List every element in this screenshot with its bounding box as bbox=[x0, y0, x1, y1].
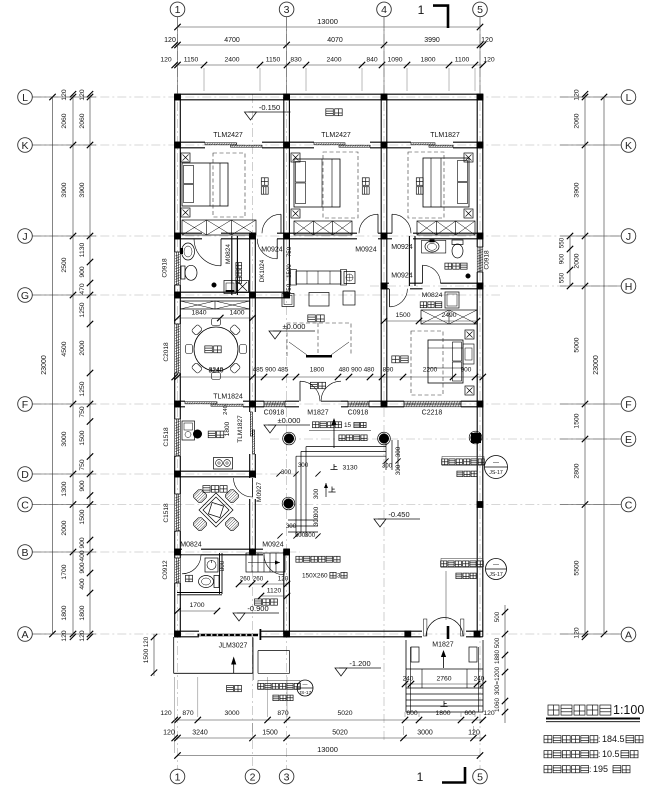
svg-text:120: 120 bbox=[160, 57, 172, 64]
svg-text:2400: 2400 bbox=[326, 57, 341, 64]
svg-text:1700: 1700 bbox=[189, 602, 204, 609]
svg-text:3: 3 bbox=[284, 4, 290, 16]
svg-text:TLM1827: TLM1827 bbox=[237, 415, 244, 443]
svg-text:K: K bbox=[21, 140, 28, 152]
svg-text:600: 600 bbox=[464, 710, 476, 717]
svg-text:120: 120 bbox=[483, 57, 495, 64]
svg-text::: : bbox=[589, 764, 591, 774]
svg-text:300: 300 bbox=[281, 469, 292, 476]
svg-text:C0918: C0918 bbox=[264, 410, 285, 417]
svg-text:JS-17: JS-17 bbox=[489, 470, 503, 476]
svg-text:-0.150: -0.150 bbox=[259, 103, 280, 112]
svg-text:1800: 1800 bbox=[310, 367, 325, 374]
svg-text:240: 240 bbox=[474, 676, 485, 683]
svg-text:120: 120 bbox=[61, 89, 68, 101]
svg-text:3000: 3000 bbox=[61, 431, 68, 446]
svg-text:3990: 3990 bbox=[424, 37, 440, 44]
svg-text:890: 890 bbox=[383, 367, 394, 374]
svg-text:1: 1 bbox=[417, 770, 424, 784]
svg-text:TLM2427: TLM2427 bbox=[213, 132, 243, 139]
svg-text:485: 485 bbox=[278, 367, 289, 374]
svg-text:—: — bbox=[493, 563, 499, 569]
svg-text:DK1024: DK1024 bbox=[259, 259, 266, 282]
svg-text:2400: 2400 bbox=[224, 57, 239, 64]
svg-text:J: J bbox=[626, 231, 631, 243]
svg-text:120: 120 bbox=[79, 630, 86, 642]
svg-text:600: 600 bbox=[406, 710, 418, 717]
svg-text:1300: 1300 bbox=[61, 481, 68, 496]
svg-text:23000: 23000 bbox=[41, 355, 48, 375]
svg-text:400: 400 bbox=[79, 578, 86, 590]
svg-text:830: 830 bbox=[290, 57, 302, 64]
svg-text:900: 900 bbox=[559, 253, 566, 264]
svg-text:M0924: M0924 bbox=[355, 247, 377, 254]
svg-text:840: 840 bbox=[366, 57, 378, 64]
svg-text:485: 485 bbox=[253, 367, 264, 374]
svg-text:900: 900 bbox=[79, 537, 86, 549]
svg-text:120: 120 bbox=[278, 576, 289, 583]
svg-text:2000: 2000 bbox=[61, 520, 68, 535]
svg-text:120: 120 bbox=[61, 630, 68, 642]
svg-text:300: 300 bbox=[286, 523, 297, 530]
svg-text:L: L bbox=[626, 92, 632, 104]
svg-text:5: 5 bbox=[477, 771, 483, 783]
svg-text:300: 300 bbox=[395, 464, 402, 475]
svg-text:1: 1 bbox=[418, 3, 425, 17]
svg-text:15: 15 bbox=[344, 422, 352, 429]
svg-text:240: 240 bbox=[403, 676, 414, 683]
svg-text:300: 300 bbox=[298, 462, 309, 469]
svg-text:C0912: C0912 bbox=[162, 560, 169, 580]
svg-text:1150: 1150 bbox=[266, 57, 281, 64]
svg-text:1800: 1800 bbox=[435, 710, 450, 717]
svg-text:A: A bbox=[625, 629, 632, 641]
svg-text:M0924: M0924 bbox=[391, 273, 413, 280]
svg-text:D: D bbox=[21, 469, 29, 481]
svg-text:1880: 1880 bbox=[494, 650, 501, 665]
svg-text:23000: 23000 bbox=[593, 355, 600, 375]
svg-text:2760: 2760 bbox=[436, 676, 451, 683]
svg-text:120: 120 bbox=[481, 37, 493, 44]
svg-text:2500: 2500 bbox=[61, 257, 68, 272]
svg-text:E: E bbox=[625, 434, 632, 446]
svg-text:K: K bbox=[625, 140, 632, 152]
svg-text:1250: 1250 bbox=[79, 381, 86, 396]
svg-text:260: 260 bbox=[240, 576, 251, 583]
svg-text:2800: 2800 bbox=[574, 463, 581, 478]
svg-text:JS-17: JS-17 bbox=[489, 572, 503, 578]
svg-text:—: — bbox=[493, 461, 499, 467]
svg-text:M1827: M1827 bbox=[432, 642, 454, 649]
svg-text:H: H bbox=[625, 281, 633, 293]
svg-text:1500: 1500 bbox=[286, 264, 293, 278]
svg-text:C1518: C1518 bbox=[163, 427, 170, 447]
svg-text:5: 5 bbox=[477, 4, 483, 16]
svg-text:300: 300 bbox=[305, 532, 316, 539]
svg-text:4700: 4700 bbox=[224, 37, 240, 44]
svg-text:F: F bbox=[22, 399, 28, 411]
svg-text:750: 750 bbox=[286, 246, 293, 257]
svg-text:1840: 1840 bbox=[191, 310, 206, 317]
svg-text:2000: 2000 bbox=[574, 253, 581, 268]
svg-text:1500: 1500 bbox=[574, 413, 581, 428]
svg-text:C0918: C0918 bbox=[162, 258, 169, 278]
svg-text:3130: 3130 bbox=[342, 465, 357, 472]
svg-text:M0927: M0927 bbox=[256, 482, 263, 502]
svg-text:195: 195 bbox=[593, 764, 608, 774]
svg-text:3240: 3240 bbox=[192, 730, 208, 737]
svg-text:2060: 2060 bbox=[574, 113, 581, 128]
svg-text:1500: 1500 bbox=[79, 509, 86, 524]
svg-text:C0918: C0918 bbox=[484, 250, 491, 270]
svg-text:300: 300 bbox=[395, 446, 402, 457]
svg-text:M1827: M1827 bbox=[307, 410, 329, 417]
svg-text:184.5: 184.5 bbox=[602, 734, 625, 744]
svg-text:TLM2427: TLM2427 bbox=[321, 132, 351, 139]
svg-text:870: 870 bbox=[182, 710, 194, 717]
svg-text:C: C bbox=[21, 499, 29, 511]
svg-text:900: 900 bbox=[79, 266, 86, 278]
svg-text:1400: 1400 bbox=[229, 310, 244, 317]
svg-text:120: 120 bbox=[574, 627, 581, 639]
svg-text:M0924: M0924 bbox=[261, 247, 283, 254]
svg-text:1150: 1150 bbox=[184, 57, 199, 64]
svg-text:1800: 1800 bbox=[79, 605, 86, 620]
svg-text:J: J bbox=[22, 231, 27, 243]
svg-text:3900: 3900 bbox=[574, 182, 581, 197]
svg-text:L: L bbox=[22, 92, 28, 104]
svg-text:1500: 1500 bbox=[143, 648, 150, 663]
svg-text:1500: 1500 bbox=[395, 312, 410, 319]
svg-text:2060: 2060 bbox=[61, 113, 68, 128]
svg-text:1100: 1100 bbox=[455, 57, 470, 64]
svg-text:C2218: C2218 bbox=[422, 410, 443, 417]
svg-text:1500: 1500 bbox=[262, 730, 278, 737]
svg-text:300: 300 bbox=[313, 488, 320, 499]
svg-text:900: 900 bbox=[461, 367, 472, 374]
svg-text:1: 1 bbox=[175, 4, 181, 16]
svg-text:TLM1824: TLM1824 bbox=[213, 394, 243, 401]
svg-text:300: 300 bbox=[313, 515, 320, 526]
svg-text:1:100: 1:100 bbox=[613, 703, 644, 717]
svg-text:1: 1 bbox=[175, 771, 181, 783]
svg-text:1120: 1120 bbox=[267, 588, 282, 595]
svg-text:5500: 5500 bbox=[574, 560, 581, 575]
svg-text:-1.200: -1.200 bbox=[349, 659, 370, 668]
svg-text:1500: 1500 bbox=[79, 430, 86, 445]
svg-text:5000: 5000 bbox=[574, 337, 581, 352]
svg-text:3: 3 bbox=[337, 573, 341, 580]
svg-text:3000: 3000 bbox=[417, 730, 433, 737]
svg-text:2000: 2000 bbox=[79, 340, 86, 355]
svg-text:5020: 5020 bbox=[337, 710, 352, 717]
svg-text:A: A bbox=[21, 629, 28, 641]
svg-text:120: 120 bbox=[79, 89, 86, 101]
svg-text::: : bbox=[598, 734, 600, 744]
svg-text:2200: 2200 bbox=[423, 367, 438, 374]
svg-text:4070: 4070 bbox=[327, 37, 343, 44]
svg-text:3000: 3000 bbox=[224, 710, 239, 717]
svg-text:2490: 2490 bbox=[441, 312, 456, 319]
svg-text:5020: 5020 bbox=[332, 730, 348, 737]
svg-text:3: 3 bbox=[284, 771, 290, 783]
svg-text:M0824: M0824 bbox=[422, 292, 443, 299]
svg-text:750: 750 bbox=[79, 459, 86, 471]
svg-text:1250: 1250 bbox=[79, 302, 86, 317]
svg-text:1800: 1800 bbox=[224, 421, 231, 436]
svg-text:±0.000: ±0.000 bbox=[278, 416, 301, 425]
svg-text:900: 900 bbox=[351, 367, 362, 374]
svg-text:3900: 3900 bbox=[61, 182, 68, 197]
svg-text:300: 300 bbox=[313, 506, 320, 517]
svg-text:480: 480 bbox=[364, 367, 375, 374]
svg-text:C1518: C1518 bbox=[163, 503, 170, 523]
svg-text:900: 900 bbox=[79, 480, 86, 492]
svg-text:B: B bbox=[21, 547, 28, 559]
svg-text:M0924: M0924 bbox=[262, 542, 284, 549]
svg-text:1800: 1800 bbox=[420, 57, 435, 64]
svg-text:13000: 13000 bbox=[317, 745, 338, 754]
svg-text:260: 260 bbox=[253, 576, 264, 583]
svg-text:800: 800 bbox=[219, 560, 226, 571]
svg-text:550: 550 bbox=[559, 272, 566, 283]
svg-text:C0918: C0918 bbox=[348, 410, 369, 417]
svg-text:500: 500 bbox=[494, 611, 501, 622]
svg-text:240: 240 bbox=[223, 405, 229, 415]
svg-text:1700: 1700 bbox=[61, 564, 68, 579]
svg-text:±0.000: ±0.000 bbox=[283, 322, 306, 331]
svg-text:4: 4 bbox=[381, 4, 387, 16]
svg-text:120: 120 bbox=[574, 89, 581, 101]
svg-text:120: 120 bbox=[468, 730, 480, 737]
svg-text:120: 120 bbox=[160, 710, 172, 717]
svg-text:2060: 2060 bbox=[79, 113, 86, 128]
svg-text:—: — bbox=[303, 682, 308, 688]
svg-text:300=1200: 300=1200 bbox=[494, 666, 501, 695]
svg-text:TLM1827: TLM1827 bbox=[430, 132, 460, 139]
svg-text::: : bbox=[598, 749, 600, 759]
svg-text:2: 2 bbox=[250, 771, 256, 783]
svg-text:480: 480 bbox=[339, 367, 350, 374]
svg-text:150X260: 150X260 bbox=[302, 573, 328, 580]
svg-text:1130: 1130 bbox=[79, 242, 86, 257]
svg-text:10.5: 10.5 bbox=[602, 749, 620, 759]
svg-text:G: G bbox=[21, 290, 29, 302]
svg-text:F: F bbox=[625, 399, 631, 411]
svg-text:550: 550 bbox=[559, 237, 566, 248]
svg-text:3900: 3900 bbox=[79, 182, 86, 197]
svg-text:M0824: M0824 bbox=[180, 542, 202, 549]
svg-text:750: 750 bbox=[286, 283, 293, 294]
svg-text:900: 900 bbox=[79, 562, 86, 574]
svg-text:120: 120 bbox=[163, 730, 175, 737]
svg-text:-0.450: -0.450 bbox=[388, 510, 409, 519]
svg-text:750: 750 bbox=[79, 406, 86, 418]
svg-text:500: 500 bbox=[494, 637, 501, 648]
svg-text:M0924: M0924 bbox=[391, 244, 413, 251]
svg-text:3240: 3240 bbox=[208, 368, 223, 375]
svg-text:M0824: M0824 bbox=[225, 244, 232, 264]
svg-text:1060: 1060 bbox=[494, 698, 501, 713]
svg-text:1090: 1090 bbox=[387, 57, 402, 64]
svg-text:470: 470 bbox=[79, 283, 86, 295]
svg-text:C: C bbox=[625, 499, 633, 511]
svg-text:120: 120 bbox=[164, 37, 176, 44]
svg-text:120: 120 bbox=[143, 636, 150, 647]
svg-text:1800: 1800 bbox=[61, 605, 68, 620]
svg-text:C2018: C2018 bbox=[163, 342, 170, 362]
svg-text:JLM3027: JLM3027 bbox=[219, 643, 248, 650]
svg-text:900: 900 bbox=[265, 367, 276, 374]
svg-text:JS-17: JS-17 bbox=[299, 690, 312, 696]
svg-text:4500: 4500 bbox=[61, 341, 68, 356]
svg-text:13000: 13000 bbox=[317, 17, 338, 26]
